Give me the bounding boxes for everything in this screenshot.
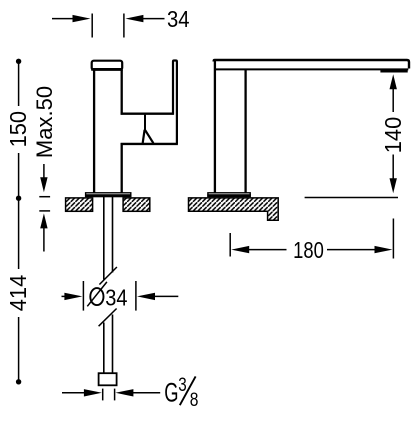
dim G38 tick right (114, 389, 116, 401)
dim O34 label: diameter circle (90, 288, 103, 305)
dim 140 up arrow (390, 74, 397, 89)
counter left block (hatched) (66, 198, 93, 211)
dim O34 extension bar left (82, 281, 84, 311)
dim line segments (18, 61, 20, 380)
body right edge lower (121, 143, 123, 193)
lever wedge right stroke (145, 130, 153, 143)
svg-text:180: 180 (293, 238, 324, 263)
dim 180 right arrow (327, 246, 393, 253)
dim O34 extension bar right (135, 281, 137, 311)
dim 180 extension line left (229, 233, 231, 257)
dim 180 extension line right (392, 219, 394, 259)
dim 140 line upper (392, 88, 394, 113)
svg-text:Max.50: Max.50 (32, 86, 57, 158)
pipe break slash upper (99, 267, 117, 285)
spout top line (214, 60, 409, 69)
dim 140 down arrow (390, 178, 397, 193)
body right edge upper (121, 70, 123, 115)
riser left edge (214, 60, 216, 193)
left flange outline (86, 193, 131, 197)
dim G38 left arrow (62, 389, 102, 396)
svg-text:34: 34 (105, 284, 127, 311)
body left edge (93, 70, 95, 193)
Max50 tick top (39, 196, 50, 198)
lever wedge left stroke (143, 130, 145, 143)
dim O34 left arrow (62, 293, 83, 300)
dot middle (16, 196, 21, 201)
aerator (380, 69, 407, 72)
dot top (16, 59, 21, 64)
Max50 up arrow (40, 213, 47, 228)
svg-text:150: 150 (5, 111, 31, 147)
right flange solid bottom (207, 194, 251, 197)
dim 34 extension line left (91, 14, 93, 38)
supply pipe lower segment (104, 315, 113, 374)
left flange solid bottom (85, 194, 131, 197)
dim 180 left arrow (231, 246, 286, 253)
svg-text:414: 414 (5, 275, 31, 311)
right counter slab with lip (hatched) (189, 198, 279, 220)
Max50 down arrow (40, 177, 47, 192)
cap (92, 61, 123, 70)
counter right block (hatched) (123, 198, 150, 211)
cartridge inner vertical line (144, 115, 146, 131)
dim G38 right arrow (115, 389, 160, 396)
supply pipe upper segment (104, 197, 113, 280)
dim 34 right arrow line (125, 15, 164, 22)
svg-text:3: 3 (178, 373, 186, 395)
diameter slash (87, 282, 107, 306)
dim G38 tick left (102, 389, 104, 401)
svg-text:34: 34 (167, 6, 190, 33)
spout bottom line (216, 68, 408, 70)
reference line under spout end (305, 197, 398, 199)
cap bottom thick line (91, 68, 123, 71)
dim O34 right arrow (137, 293, 178, 300)
fitting nut (99, 373, 117, 385)
dim 34 left arrow line (52, 15, 91, 22)
pipe break slash lower (99, 309, 117, 327)
Max50 lower line (43, 227, 45, 252)
fraction slash (180, 376, 196, 405)
riser right edge (244, 69, 246, 192)
dot bottom (16, 379, 21, 384)
svg-text:G: G (164, 377, 178, 407)
svg-text:140: 140 (380, 117, 406, 153)
Max50 upper line (43, 164, 45, 179)
handle/block bottom line (121, 143, 178, 145)
svg-text:8: 8 (190, 388, 199, 410)
connector line body to handle (121, 112, 174, 114)
handle lever outline (173, 61, 177, 144)
dim 140 line lower (392, 155, 394, 180)
right flange outline (208, 193, 250, 197)
dim 34 extension line right (123, 14, 125, 38)
Max50 tick bottom (39, 210, 50, 212)
